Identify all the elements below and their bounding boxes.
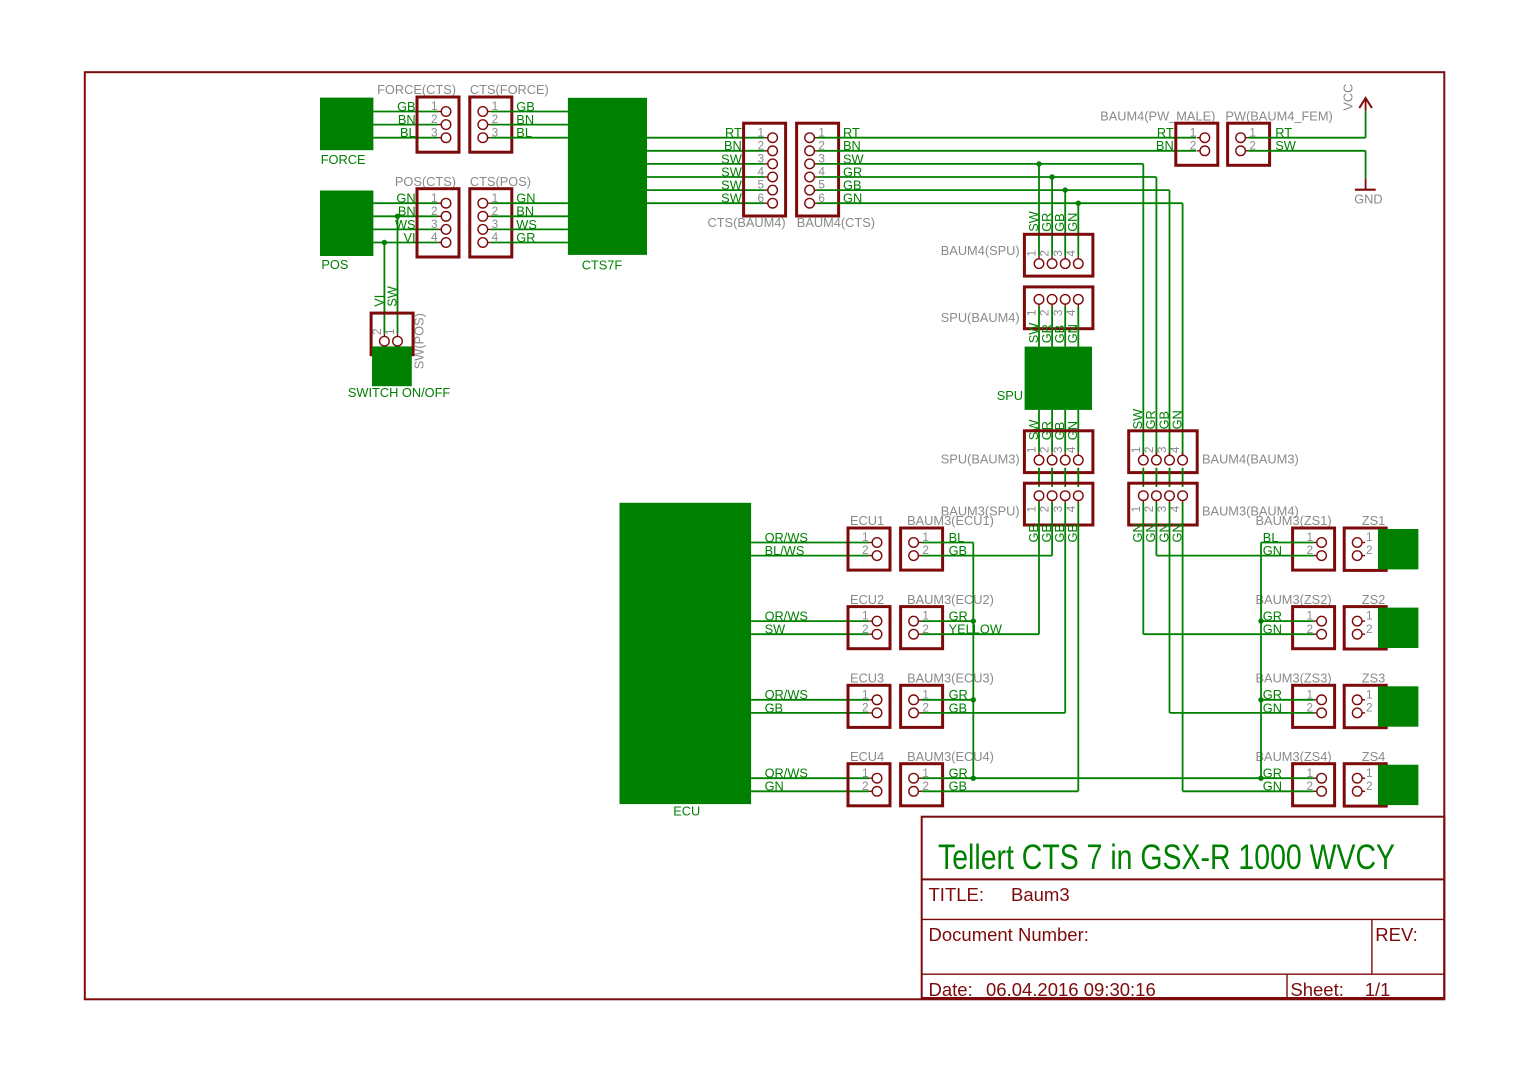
svg-text:CTS(FORCE): CTS(FORCE): [470, 82, 549, 97]
junction bus2 ZS4: [1258, 776, 1263, 781]
svg-text:3: 3: [431, 217, 438, 231]
wire GN col4 to BAUM3(ZS4) pin2: [1183, 790, 1314, 792]
net label GR: [949, 766, 968, 781]
wire ECU to ECU3 pin1: [751, 699, 869, 701]
svg-text:1: 1: [1025, 506, 1039, 513]
net label GN: [396, 191, 415, 206]
junction bus2 ZS3: [1258, 697, 1263, 702]
net label GR (rotated): [1039, 324, 1054, 343]
wire POS pin4 to POS(CTS) pin4: [373, 242, 438, 244]
svg-text:GN: GN: [1065, 213, 1080, 232]
net label GR (rotated): [1143, 410, 1158, 429]
net label BL: [400, 125, 416, 140]
power symbol VCC: [1359, 98, 1372, 111]
label BAUM3(BAUM4): [1202, 503, 1299, 518]
block CTS7F: [568, 98, 647, 255]
junction SPU branch 3: [1063, 187, 1068, 192]
connector BAUM3(ZS2): [1293, 607, 1335, 649]
bus wire ZS side vertical: [1260, 543, 1262, 779]
svg-text:ECU2: ECU2: [850, 592, 884, 607]
net label OR/WS: [765, 530, 808, 545]
wire CTS7F to CTS(BAUM4) pin2: [647, 150, 765, 152]
net label BN: [398, 204, 416, 219]
svg-text:BAUM4(BAUM3): BAUM4(BAUM3): [1202, 451, 1299, 466]
connector BAUM3(SPU): [1024, 483, 1093, 525]
bus wire ECU side vertical: [972, 543, 974, 779]
wire VI down to SW(POS) pin2: [383, 243, 385, 334]
svg-text:SWITCH ON/OFF: SWITCH ON/OFF: [348, 385, 451, 400]
connector BAUM3(ECU3): [901, 685, 943, 727]
wire GN horizontal to column: [818, 202, 1183, 204]
svg-text:POS: POS: [321, 257, 348, 272]
wire ECU to ECU2 pin2: [751, 633, 869, 635]
svg-text:BL/WS: BL/WS: [765, 543, 805, 558]
svg-text:GN: GN: [765, 779, 784, 794]
junction SPU branch 1: [1036, 161, 1041, 166]
junction bus1 ECU3: [971, 697, 976, 702]
svg-text:BAUM3(ZS3): BAUM3(ZS3): [1256, 671, 1332, 686]
junction on BN wire: [395, 214, 400, 219]
label GND: [1354, 191, 1382, 206]
wire SW to GND: [1249, 151, 1366, 179]
junction SPU branch 2: [1049, 174, 1054, 179]
svg-text:1: 1: [862, 530, 869, 544]
wire CTS(POS) pin4 to CTS7F: [491, 242, 568, 244]
svg-text:SW: SW: [765, 622, 787, 637]
svg-text:CTS7F: CTS7F: [582, 257, 623, 272]
label POS: [321, 257, 348, 272]
svg-text:4: 4: [431, 230, 438, 244]
svg-text:2: 2: [1366, 779, 1373, 793]
svg-text:POS(CTS): POS(CTS): [395, 174, 456, 189]
label CTS(FORCE): [470, 82, 549, 97]
net label BN: [398, 112, 416, 127]
svg-text:3: 3: [1155, 446, 1169, 453]
net label OR/WS: [765, 609, 808, 624]
svg-text:SPU: SPU: [997, 388, 1023, 403]
net label SW: [843, 151, 865, 166]
wire SPU(BAUM3) to BAUM3(SPU) pin1: [1038, 468, 1040, 487]
label REV:: [1375, 924, 1418, 945]
connector CTS(FORCE): [470, 97, 512, 152]
net label GB: [397, 99, 416, 114]
svg-text:SPU(BAUM3): SPU(BAUM3): [941, 451, 1020, 466]
svg-text:4: 4: [1064, 250, 1078, 257]
svg-text:Baum3: Baum3: [1011, 884, 1070, 905]
net label SW (rotated): [1130, 408, 1145, 430]
wire FORCE pin1 to FORCE(CTS) pin1: [373, 111, 438, 113]
wire column 1 down to BAUM4(BAUM3) pin1: [1142, 164, 1144, 455]
net label GN: [1263, 779, 1282, 794]
net label GR: [1263, 766, 1282, 781]
wire POS pin3 to POS(CTS) pin3: [373, 228, 438, 230]
svg-text:4: 4: [758, 165, 765, 179]
wire GR bus2 to BAUM3(ZS2) pin1: [1261, 620, 1314, 622]
wire CTS(FORCE) pin1 to CTS7F: [491, 111, 568, 113]
net label SW (rotated): [1026, 210, 1041, 232]
connector ECU2: [848, 607, 890, 649]
label ZS3: [1362, 671, 1385, 686]
net label GB: [949, 700, 968, 715]
wire ECU to ECU4 pin2: [751, 790, 869, 792]
connector CTS(POS): [470, 189, 512, 257]
svg-text:1/1: 1/1: [1365, 979, 1391, 1000]
net label GB (rotated): [1052, 325, 1067, 344]
net label OR/WS: [765, 766, 808, 781]
svg-text:SW(POS): SW(POS): [412, 313, 427, 369]
net label GR (rotated): [1039, 421, 1054, 440]
wire CTS7F to CTS(BAUM4) pin3: [647, 163, 765, 165]
svg-text:2: 2: [1038, 250, 1052, 257]
net label GB: [516, 99, 535, 114]
net label BL: [1263, 530, 1279, 545]
svg-text:GB: GB: [1065, 524, 1080, 543]
net label SW: [721, 178, 743, 193]
svg-text:BAUM3(ZS2): BAUM3(ZS2): [1256, 592, 1332, 607]
net label RT: [725, 125, 742, 140]
label ECU1: [850, 513, 884, 528]
svg-text:1: 1: [431, 191, 438, 205]
net label BL: [949, 530, 965, 545]
net label RT: [1275, 125, 1292, 140]
net label GN: [843, 191, 862, 206]
wire down to BAUM4(SPU) pin2: [1051, 177, 1053, 256]
net label BN: [724, 138, 742, 153]
wire CTS7F to CTS(BAUM4) pin5: [647, 189, 765, 191]
svg-text:GN: GN: [1169, 410, 1184, 429]
svg-text:2: 2: [862, 779, 869, 793]
svg-text:1: 1: [1366, 766, 1373, 780]
label Document Number:: [929, 924, 1089, 945]
wire GR BAUM3(ECU4) pin1 to BAUM3(ZS4) pin1: [921, 777, 1313, 779]
svg-text:TITLE:: TITLE:: [929, 884, 985, 905]
wire SPU(BAUM3) to BAUM3(SPU) pin4: [1077, 468, 1079, 487]
svg-text:3: 3: [1051, 446, 1065, 453]
label FORCE: [321, 152, 366, 167]
svg-text:VI: VI: [404, 230, 416, 245]
label SPU(BAUM4): [941, 310, 1020, 325]
wire SPU(BAUM4) pin3 to SPU: [1064, 307, 1066, 347]
junction bus1 ECU4: [971, 776, 976, 781]
wire BAUM4(BAUM3) to BAUM3(BAUM4) pin2: [1155, 468, 1157, 487]
svg-text:FORCE(CTS): FORCE(CTS): [377, 82, 456, 97]
wire ECU to ECU2 pin1: [751, 620, 869, 622]
net label GN: [1263, 543, 1282, 558]
wire SPU(BAUM4) pin2 to SPU: [1051, 307, 1053, 347]
label ECU3: [850, 671, 884, 686]
label SW(POS) (rotated): [412, 313, 427, 369]
label BAUM3(ECU1): [907, 513, 994, 528]
block SWITCH ON/OFF: [372, 346, 412, 386]
label ECU2: [850, 592, 884, 607]
label CTS7F: [582, 257, 623, 272]
wire BAUM3(BAUM4) pin2 down: [1155, 503, 1157, 556]
net label OR/WS: [765, 687, 808, 702]
svg-text:GN: GN: [1169, 523, 1184, 542]
junction SPU branch 4: [1076, 201, 1081, 206]
svg-text:2: 2: [1366, 701, 1373, 715]
wire CTS(POS) pin1 to CTS7F: [491, 202, 568, 204]
connector ZS4: [1344, 764, 1386, 806]
label BAUM3(ECU4): [907, 749, 994, 764]
wire SPU to SPU(BAUM3) pin4: [1077, 410, 1079, 452]
svg-text:Sheet:: Sheet:: [1290, 979, 1344, 1000]
net label BN: [1156, 138, 1174, 153]
svg-text:SW: SW: [385, 285, 400, 307]
wire CTS7F to CTS(BAUM4) pin1: [647, 137, 765, 139]
block ZS4: [1378, 765, 1418, 805]
svg-text:1: 1: [1366, 530, 1373, 544]
net label GB (rotated): [1156, 411, 1171, 430]
svg-text:ZS1: ZS1: [1362, 513, 1385, 528]
label Date:: [929, 979, 973, 1000]
net label GN (rotated): [1169, 523, 1184, 542]
label CTS(BAUM4): [707, 215, 785, 230]
net label SW (rotated): [1026, 419, 1041, 441]
wire POS pin1 to POS(CTS) pin1: [373, 202, 438, 204]
net label GN (rotated): [1065, 213, 1080, 232]
net label GR: [1263, 609, 1282, 624]
label BAUM4(PW_MALE): [1100, 108, 1215, 123]
connector BAUM4(BAUM3): [1129, 431, 1198, 473]
connector BAUM3(BAUM4): [1129, 483, 1198, 525]
label VCC (rotated): [1341, 84, 1356, 111]
wire FORCE pin2 to FORCE(CTS) pin2: [373, 124, 438, 126]
label ECU: [673, 804, 700, 819]
block SPU: [1025, 347, 1092, 410]
svg-text:1: 1: [1190, 125, 1197, 139]
svg-text:2: 2: [1142, 447, 1156, 454]
net label GB: [843, 178, 862, 193]
title text: [938, 838, 1395, 877]
net label GN: [516, 191, 535, 206]
junction bus2 ZS2: [1258, 618, 1263, 623]
net label YELLOW: [949, 622, 1003, 637]
label BAUM3(ZS4): [1256, 749, 1332, 764]
net label GR: [843, 164, 862, 179]
svg-text:4: 4: [1064, 446, 1078, 453]
label Sheet:: [1290, 979, 1344, 1000]
net label GN: [1263, 622, 1282, 637]
wire down to BAUM4(SPU) pin3: [1064, 190, 1066, 256]
block POS: [320, 191, 373, 257]
net label GN (rotated): [1169, 410, 1184, 429]
svg-text:1: 1: [862, 609, 869, 623]
connector BAUM3(ECU2): [901, 607, 943, 649]
wire GB BAUM3(ECU3) pin2 to SPU col3: [921, 712, 1065, 714]
net label GN: [1263, 700, 1282, 715]
svg-text:ECU4: ECU4: [850, 749, 884, 764]
connector ECU1: [848, 528, 890, 570]
svg-text:1: 1: [431, 99, 438, 113]
svg-text:BAUM4(PW_MALE): BAUM4(PW_MALE): [1100, 108, 1215, 123]
net label GN (rotated): [1156, 523, 1171, 542]
connector BAUM4(SPU): [1024, 234, 1093, 276]
wire POS pin2 to POS(CTS) pin2: [373, 215, 438, 217]
wire CTS(FORCE) pin3 to CTS7F: [491, 137, 568, 139]
wire CTS(POS) pin3 to CTS7F: [491, 228, 568, 230]
svg-text:REV:: REV:: [1375, 924, 1418, 945]
wire GB BAUM3(ECU4) pin2 to SPU col4: [921, 790, 1078, 792]
wire ECU to ECU1 pin1: [751, 542, 869, 544]
svg-text:2: 2: [758, 138, 765, 152]
label BAUM3(SPU): [941, 503, 1020, 518]
svg-text:BAUM4(SPU): BAUM4(SPU): [941, 243, 1020, 258]
svg-text:2: 2: [862, 622, 869, 636]
wire CTS(FORCE) pin2 to CTS7F: [491, 124, 568, 126]
wire GN col3 to BAUM3(ZS3) pin2: [1170, 712, 1314, 714]
wire GN col1 to BAUM3(ZS2) pin2: [1143, 633, 1314, 635]
label SWITCH ON/OFF: [348, 385, 451, 400]
wire ECU to ECU3 pin2: [751, 712, 869, 714]
svg-text:ZS3: ZS3: [1362, 671, 1385, 686]
net label GB: [949, 543, 968, 558]
net label GN (rotated): [1130, 523, 1145, 542]
wire column 2 down to BAUM4(BAUM3) pin2: [1155, 177, 1157, 455]
net label WS: [516, 217, 537, 232]
net label SW: [765, 622, 787, 637]
svg-text:1: 1: [1129, 447, 1143, 454]
connector BAUM3(ZS4): [1293, 764, 1335, 806]
svg-text:1: 1: [1025, 250, 1039, 257]
wire BAUM4(BAUM3) to BAUM3(BAUM4) pin4: [1182, 468, 1184, 487]
svg-text:1: 1: [862, 766, 869, 780]
svg-text:BAUM3(ECU4): BAUM3(ECU4): [907, 749, 994, 764]
wire column 3 down to BAUM4(BAUM3) pin3: [1169, 190, 1171, 455]
svg-text:SPU(BAUM4): SPU(BAUM4): [941, 310, 1020, 325]
connector ZS1: [1344, 528, 1386, 570]
net label GB (rotated): [1052, 213, 1067, 232]
wire SPU to SPU(BAUM3) pin2: [1051, 410, 1053, 452]
net label GR: [949, 687, 968, 702]
net label GB (rotated): [1065, 524, 1080, 543]
svg-text:CTS(POS): CTS(POS): [470, 174, 531, 189]
net label BN: [516, 112, 534, 127]
svg-text:ECU: ECU: [673, 804, 700, 819]
svg-text:2: 2: [1038, 447, 1052, 454]
net label BL: [516, 125, 532, 140]
wire FORCE pin3 to FORCE(CTS) pin3: [373, 137, 438, 139]
net label SW: [1275, 138, 1297, 153]
wire SPU(BAUM4) pin1 to SPU: [1038, 307, 1040, 347]
wire SW horizontal to column: [818, 163, 1144, 165]
net label BN: [516, 204, 534, 219]
label TITLE:: [929, 884, 985, 905]
wire GR horizontal to column: [818, 176, 1157, 178]
net label BN: [843, 138, 861, 153]
net label GR: [516, 230, 535, 245]
connector ECU4: [848, 764, 890, 806]
wire BAUM4(BAUM3) to BAUM3(BAUM4) pin3: [1169, 468, 1171, 487]
ground symbol GND: [1355, 178, 1376, 190]
wire BAUM3(SPU) pin4 down: [1077, 503, 1079, 792]
wire SPU to SPU(BAUM3) pin3: [1064, 410, 1066, 452]
value 1/1: [1365, 979, 1391, 1000]
svg-text:GND: GND: [1354, 191, 1382, 206]
svg-text:BAUM3(ECU3): BAUM3(ECU3): [907, 671, 994, 686]
net label GB: [765, 700, 784, 715]
svg-text:GB: GB: [765, 700, 784, 715]
net label RT: [843, 125, 860, 140]
net label WS: [395, 217, 416, 232]
wire CTS7F to CTS(BAUM4) pin4: [647, 176, 765, 178]
block FORCE: [320, 98, 373, 151]
value Baum3: [1011, 884, 1070, 905]
value date: [986, 979, 1156, 1000]
svg-text:BAUM3(ZS1): BAUM3(ZS1): [1256, 513, 1332, 528]
svg-text:PW(BAUM4_FEM): PW(BAUM4_FEM): [1225, 108, 1332, 123]
net label SW (rotated): [385, 285, 400, 307]
wire GR BAUM3(ECU2) pin1 to bus1: [921, 620, 973, 622]
connector ECU3: [848, 685, 890, 727]
svg-text:2: 2: [1190, 138, 1197, 152]
wire CTS(POS) pin2 to CTS7F: [491, 215, 568, 217]
svg-text:BAUM3(ZS4): BAUM3(ZS4): [1256, 749, 1332, 764]
svg-text:ECU3: ECU3: [850, 671, 884, 686]
label CTS(POS): [470, 174, 531, 189]
svg-text:VCC: VCC: [1341, 84, 1356, 111]
label SPU(BAUM3): [941, 451, 1020, 466]
label BAUM4(BAUM3): [1202, 451, 1299, 466]
connector PW(BAUM4_FEM): [1228, 123, 1270, 165]
net label GB (rotated): [1052, 524, 1067, 543]
label BAUM4(SPU): [941, 243, 1020, 258]
svg-text:BN: BN: [1156, 138, 1174, 153]
net label GB: [949, 779, 968, 794]
connector SPU(BAUM3): [1024, 431, 1093, 473]
label SPU: [997, 388, 1023, 403]
wire BAUM4(BAUM3) to BAUM3(BAUM4) pin1: [1142, 468, 1144, 487]
svg-text:1: 1: [383, 328, 397, 335]
connector BAUM4(PW_MALE): [1176, 123, 1218, 165]
label BAUM4(CTS): [797, 215, 875, 230]
wire SPU to SPU(BAUM3) pin1: [1038, 410, 1040, 452]
connector BAUM3(ZS1): [1293, 528, 1335, 570]
net label GN (rotated): [1065, 421, 1080, 440]
wire BAUM3(BAUM4) pin3 down: [1169, 503, 1171, 713]
wire BL bus2 to BAUM3(ZS1) pin1: [1261, 542, 1314, 544]
label PW(BAUM4_FEM): [1225, 108, 1332, 123]
svg-text:ECU1: ECU1: [850, 513, 884, 528]
block ZS2: [1378, 608, 1418, 648]
connector SW(POS): [370, 313, 413, 355]
wire ECU to ECU1 pin2: [751, 555, 869, 557]
svg-text:BAUM3(ECU2): BAUM3(ECU2): [907, 592, 994, 607]
wire BAUM3(SPU) pin2 down: [1051, 503, 1053, 556]
connector ZS3: [1344, 685, 1386, 727]
svg-text:2: 2: [431, 204, 438, 218]
svg-text:2: 2: [1366, 622, 1373, 636]
svg-text:Date:: Date:: [929, 979, 973, 1000]
net label GN (rotated): [1143, 523, 1158, 542]
wire BAUM3(BAUM4) pin4 down: [1182, 503, 1184, 792]
junction bus1 ECU2: [971, 618, 976, 623]
svg-text:ZS2: ZS2: [1362, 592, 1385, 607]
connector BAUM3(ZS3): [1293, 685, 1335, 727]
wire BAUM3(BAUM4) pin1 down: [1142, 503, 1144, 634]
connector BAUM3(ECU1): [901, 528, 943, 570]
wire SW down to SW(POS) pin1: [397, 216, 399, 333]
net label GR: [949, 609, 968, 624]
label BAUM3(ECU3): [907, 671, 994, 686]
svg-text:2: 2: [1366, 543, 1373, 557]
net label SW (rotated): [1026, 322, 1041, 344]
wire GN col2 to BAUM3(ZS1) pin2: [1156, 555, 1313, 557]
wire column 4 down to BAUM4(BAUM3) pin4: [1182, 203, 1184, 455]
block ZS1: [1378, 529, 1418, 569]
svg-text:1: 1: [758, 125, 765, 139]
wire GB horizontal to column: [818, 189, 1170, 191]
